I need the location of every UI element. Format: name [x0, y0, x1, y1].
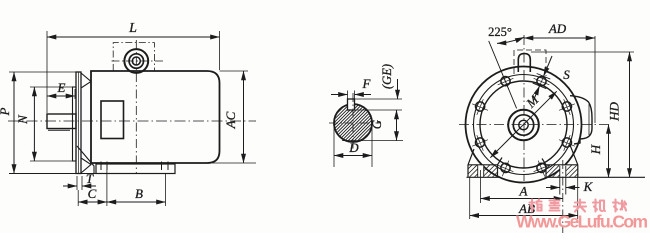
N extension top — [30, 86, 73, 88]
svg-text:225°: 225° — [488, 25, 512, 39]
svg-text:S: S — [563, 67, 570, 82]
flange spigot — [73, 87, 77, 161]
eyebolt ring inner — [132, 57, 140, 65]
A extension right dash-dot — [562, 160, 564, 233]
dimension AD line — [524, 37, 595, 39]
svg-text:B: B — [135, 186, 143, 201]
dimension H line — [608, 125, 610, 178]
shaft section circle — [334, 104, 372, 142]
shaft chamfer line — [48, 129, 70, 131]
svg-text:A: A — [519, 184, 528, 199]
char xie — [613, 200, 626, 212]
foot gusset line — [77, 146, 94, 174]
shaft — [47, 114, 76, 129]
dimension B line — [107, 201, 166, 203]
left foot hatch — [468, 165, 498, 177]
flange mid line — [77, 72, 79, 174]
char fu — [574, 200, 586, 212]
shaft circle — [513, 115, 533, 135]
motor vertical centerline — [135, 40, 137, 173]
right view vertical centerline — [523, 35, 525, 181]
D extension lines — [333, 123, 335, 167]
AC extension bottom — [212, 162, 256, 164]
dimension C line — [78, 201, 107, 203]
svg-text:T: T — [86, 171, 94, 186]
AC extension top — [220, 70, 249, 72]
svg-text:AC: AC — [223, 111, 238, 129]
foot bolt seat ticks rear — [161, 162, 163, 171]
char ge — [530, 200, 542, 212]
N extension bottom — [30, 160, 73, 162]
dimension D line — [334, 155, 372, 157]
watermark chinese characters — [530, 200, 627, 212]
eyebolt tab — [518, 54, 530, 73]
right foot — [542, 145, 578, 177]
AB extension right — [577, 178, 579, 220]
radial line 112.5deg — [489, 41, 517, 109]
dimension F arrows — [331, 94, 348, 96]
bolt hole cross ticks — [472, 74, 575, 177]
flange outer circle — [466, 67, 582, 183]
dimension E line — [47, 95, 75, 97]
svg-text:F: F — [362, 76, 372, 91]
svg-text:G: G — [369, 119, 384, 129]
keyway floor extension line — [355, 109, 403, 111]
L extension line left — [46, 31, 48, 113]
svg-text:AD: AD — [548, 21, 567, 36]
C extension line — [77, 190, 79, 206]
left foot pad top line — [468, 164, 498, 166]
S tangent ticks — [537, 74, 551, 80]
svg-text:Www.GeLufu.Com: Www.GeLufu.Com — [516, 212, 648, 232]
motor body outline — [91, 71, 220, 163]
dimension HD line — [629, 52, 631, 178]
P extension bottom / ground line — [9, 173, 175, 175]
svg-text:E: E — [57, 80, 66, 95]
ground line under feet — [467, 176, 500, 178]
svg-text:N: N — [15, 114, 30, 125]
flange raised face circle — [474, 75, 574, 175]
L extension line right — [219, 31, 221, 70]
key wall extension lines — [347, 91, 349, 100]
dimension K arrows — [546, 187, 560, 189]
dimension T extension lines — [76, 176, 78, 190]
left foot — [468, 149, 502, 177]
hatching — [294, 100, 427, 150]
dimension L line — [47, 36, 220, 38]
P extension top — [9, 71, 76, 73]
right foot hatch — [546, 165, 578, 177]
right foot pad top line — [546, 164, 578, 166]
dimension M line — [490, 91, 556, 157]
B extension line right — [165, 174, 167, 206]
eyebolt ring middle — [129, 54, 143, 68]
frame circle — [480, 81, 567, 168]
dimension T arrows — [63, 185, 77, 187]
dimension GE arrow — [397, 79, 399, 99]
eyebolt ring outer — [124, 49, 148, 73]
svg-text:L: L — [128, 21, 137, 36]
svg-text:P: P — [0, 107, 12, 116]
E extension line — [74, 89, 76, 99]
bearing boss circle — [508, 110, 539, 141]
A extension left — [480, 170, 482, 203]
svg-text:H: H — [588, 144, 603, 155]
foot bolt seat ticks front — [100, 162, 102, 171]
bell cone top — [81, 73, 91, 88]
terminal box on body side — [101, 101, 124, 139]
key (white) — [348, 99, 355, 110]
foot pad — [96, 164, 175, 174]
svg-text:C: C — [88, 186, 97, 201]
dashed box around eyebolt — [514, 50, 546, 76]
svg-text:HD: HD — [607, 102, 622, 122]
circle bottom extension line — [342, 140, 403, 142]
S arrow inner — [533, 86, 539, 101]
svg-text:D: D — [348, 140, 359, 155]
S arrow — [544, 56, 553, 76]
dimension AB line — [470, 215, 578, 217]
dimension AC line — [243, 71, 245, 163]
shaft horizontal centerline — [8, 120, 256, 122]
svg-text:(GE): (GE) — [380, 64, 394, 89]
eyebolt horizontal centerline — [112, 60, 166, 62]
B extension line left — [106, 170, 108, 206]
dimension G line — [396, 110, 398, 141]
angle arc 225 — [497, 37, 524, 43]
center hole circle — [519, 120, 528, 129]
HD top extension — [531, 51, 634, 53]
eyebolt dash-dot enclosure box — [113, 43, 154, 71]
AB extension left — [469, 178, 471, 220]
dimension N line — [33, 87, 35, 161]
right foot bolt slot — [560, 165, 566, 177]
char lu — [550, 200, 560, 211]
bell cone bottom — [81, 158, 91, 173]
dimension P line — [13, 72, 15, 174]
terminal box inner line — [588, 104, 590, 135]
svg-text:K: K — [583, 179, 594, 194]
flange plate — [76, 72, 81, 174]
left foot bolt slot — [478, 165, 484, 177]
bolt holes — [476, 77, 572, 173]
GE extension line — [355, 98, 403, 100]
dimension A line — [481, 198, 564, 200]
K slot edge lines — [559, 166, 561, 195]
char ji — [593, 200, 605, 212]
right view horizontal centerline — [459, 124, 612, 126]
terminal box side — [570, 96, 592, 144]
section horizontal centerline — [329, 122, 381, 124]
section vertical centerline — [352, 93, 354, 152]
AD extension line — [594, 36, 596, 123]
